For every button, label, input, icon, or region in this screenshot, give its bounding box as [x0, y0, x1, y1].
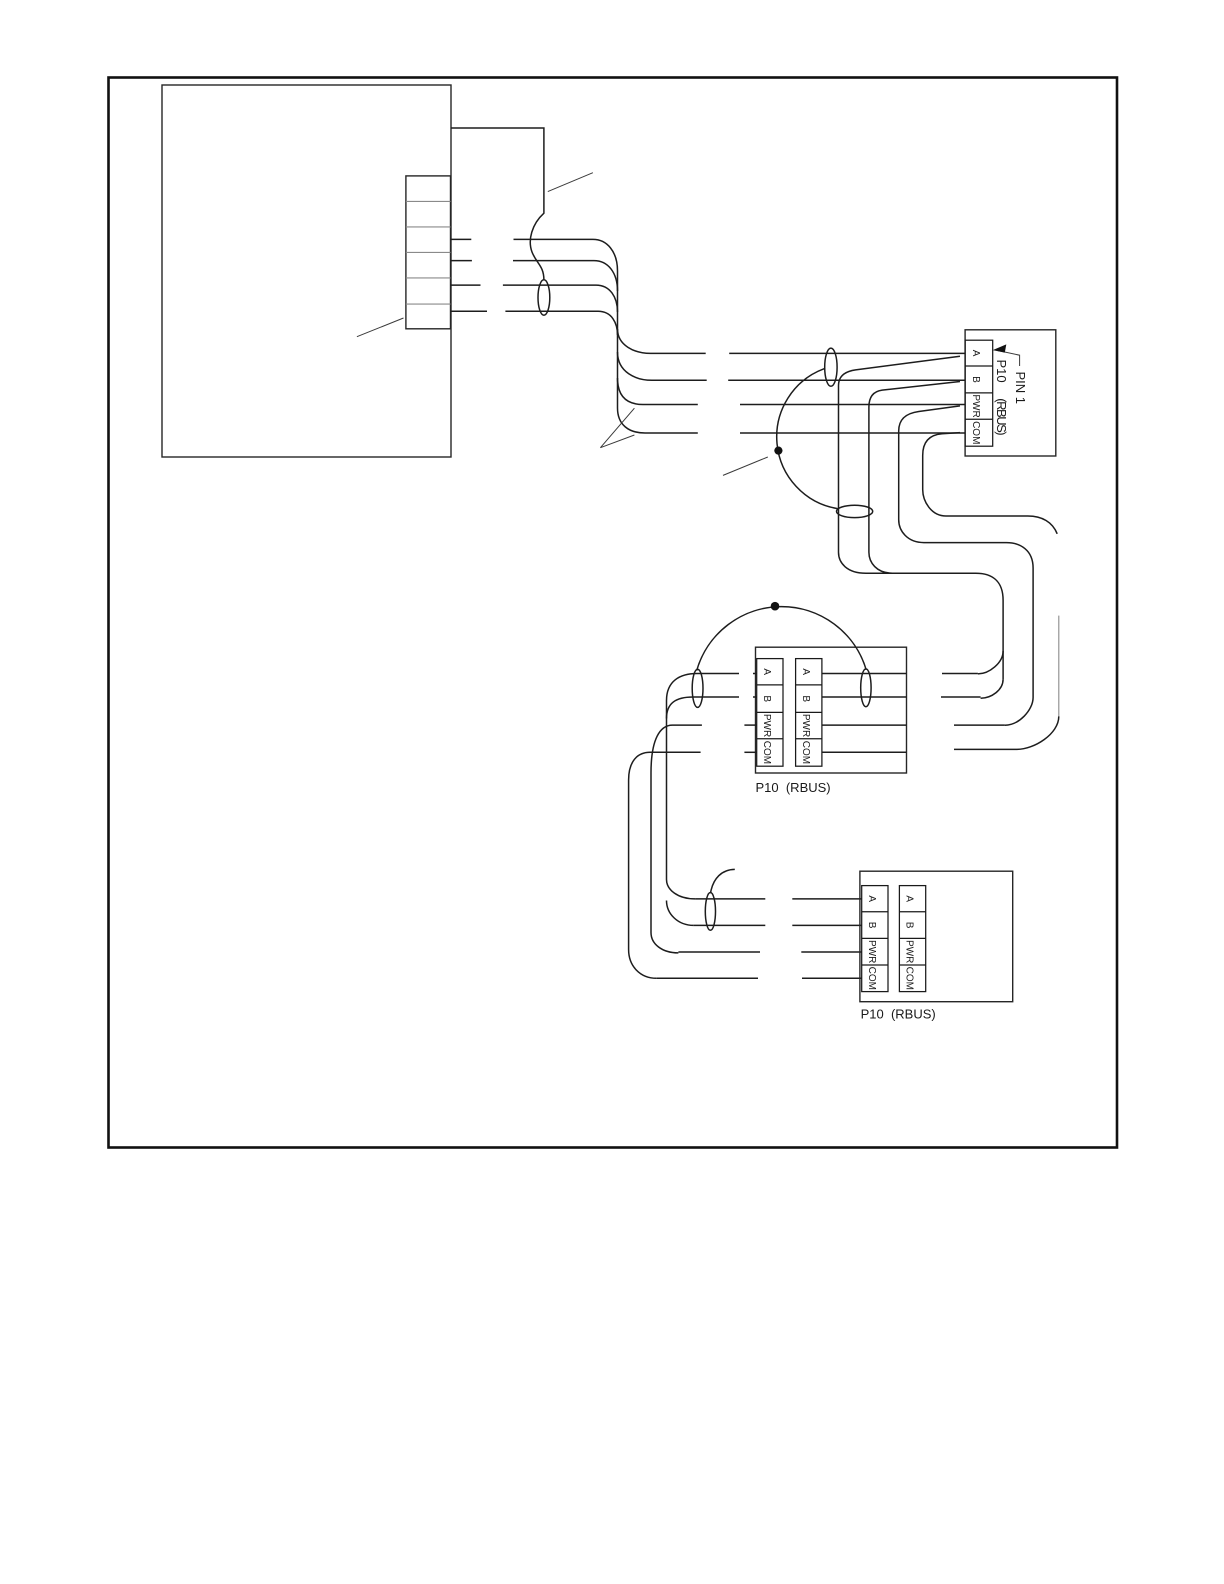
wire W3 (PWR) device stub [451, 284, 481, 286]
wire to P10-3 B pin [792, 924, 861, 926]
pair vertical continuation [1002, 651, 1004, 679]
svg-text:PWR: PWR [904, 940, 915, 963]
cable loop E5 inside P10-2 [861, 669, 871, 707]
svg-text:PWR: PWR [761, 714, 772, 737]
leader to junction dot [723, 457, 768, 475]
leader to connector J1 [357, 318, 404, 337]
wire P10-2 right PWR inside box [822, 724, 907, 726]
wire W2 (B) run to S-bend [513, 261, 618, 291]
cable loop E1 [538, 280, 550, 315]
wire W1 (A) run to P10-1 pin A [729, 352, 965, 354]
cable loop E2 at P10-1 [825, 348, 837, 386]
svg-text:PIN 1: PIN 1 [1013, 372, 1028, 405]
connector J1 on device [406, 176, 451, 329]
wire P10-1 pin COM down [923, 433, 1057, 534]
wire W2 (B) exit of S-bend toward connector P10-1 [618, 352, 707, 380]
svg-text:COM: COM [970, 421, 981, 444]
PWR elbow at P10-3 [651, 933, 678, 953]
shield drain arc C1 at P10-1 [777, 369, 838, 509]
wire P10-2 left PWR turn down [651, 725, 702, 773]
svg-text:P10: P10 [994, 360, 1009, 383]
COM vertical to P10-3 [628, 780, 630, 950]
wire P10-2 right COM inside box [822, 751, 907, 753]
svg-text:B: B [904, 922, 915, 929]
wire to P10-3 PWR pin [801, 951, 861, 953]
PIN 1 leader with arrowhead [997, 350, 1020, 366]
wire to P10-3 COM pin [802, 977, 862, 979]
COM daisy elbow into P10-2 [1017, 716, 1059, 749]
wire W4 (COM) run to S-bend [505, 311, 617, 335]
wire to P10-3 COM run [657, 977, 758, 979]
wire W1 (A) device stub [451, 238, 472, 240]
connector P10-3 right pin strip [899, 886, 925, 992]
junction dot on arc C2 [771, 602, 780, 611]
connector P10-2 left pin strip [757, 659, 783, 767]
wire P10-2 left COM turn down [629, 752, 701, 780]
wire W3 (PWR) exit of S-bend toward connector P10-1 [618, 378, 698, 405]
shield drain curl at P10-3 [711, 869, 735, 893]
wire W1 (A) exit of S-bend toward connector P10-1 [618, 329, 706, 353]
wire P10-2 left A through E4, turn down [667, 674, 740, 701]
svg-text:COM: COM [904, 967, 915, 990]
leader to wire W0 [548, 173, 593, 192]
wire P10-1 pin A to daisy chain (diagonal + vertical) [839, 356, 1004, 674]
wire to P10-3 B run [694, 924, 766, 926]
connector P10-3 left pin strip [862, 886, 888, 992]
wire W4 (COM) run to P10-1 pin COM [740, 432, 965, 434]
wire P10-1 pin B to daisy chain [869, 382, 960, 574]
svg-text:P10 (RBUS): P10 (RBUS) [756, 780, 831, 795]
COM daisy vertical (faint) [1058, 616, 1060, 717]
junction dot on arc C1 [774, 447, 782, 455]
svg-text:A: A [866, 895, 877, 902]
wire P10-2 right B resume [941, 696, 981, 698]
svg-text:A: A [800, 668, 811, 675]
connector P10-1 box [965, 330, 1056, 456]
wire W3 (PWR) run to S-bend [503, 285, 618, 312]
device box (control unit) [162, 85, 451, 457]
connector P10-1 pin strip [965, 340, 993, 446]
svg-text:PWR: PWR [800, 714, 811, 737]
svg-text:COM: COM [761, 741, 772, 764]
wire W2 (B) device stub [451, 260, 472, 262]
svg-text:PWR: PWR [866, 940, 877, 963]
svg-text:COM: COM [800, 741, 811, 764]
connector P10-2 box [756, 647, 907, 773]
wire W0 shield drain from device [451, 128, 544, 280]
A/B pair vertical to P10-3 [666, 701, 668, 880]
wire to P10-3 A run [695, 898, 765, 900]
pair split to row B at P10-3 [667, 901, 694, 926]
svg-text:P10 (RBUS): P10 (RBUS) [861, 1007, 936, 1022]
svg-text:A: A [761, 668, 772, 675]
wire P10-2 right COM resume [954, 748, 1017, 750]
svg-text:(RBUS): (RBUS) [994, 398, 1009, 435]
svg-text:B: B [866, 922, 877, 929]
wire P10-2 right B inside box [822, 696, 907, 698]
wire P10-2 right A resume [942, 673, 978, 675]
wire to P10-3 PWR run [678, 951, 760, 953]
connector P10-2 right pin strip [796, 659, 822, 767]
wire W3 (PWR) run to P10-1 pin PWR [740, 404, 965, 406]
wire W1 (A) run to S-bend [514, 239, 618, 271]
svg-text:B: B [970, 376, 981, 383]
pair split to row A at P10-3 [667, 880, 696, 899]
wire P10-2 left B through E4, turn down [667, 697, 740, 719]
cable tie loop E3 (horizontal) [837, 505, 873, 517]
wire W4 (COM) device stub [451, 310, 488, 312]
border frame [109, 78, 1118, 1148]
svg-text:B: B [800, 695, 811, 702]
svg-text:COM: COM [866, 967, 877, 990]
wire to P10-3 A pin [792, 898, 861, 900]
cable loop E4 left of P10-2 [692, 669, 703, 707]
svg-text:A: A [904, 895, 915, 902]
PWR vertical to P10-3 [650, 773, 652, 933]
svg-text:PWR: PWR [970, 394, 981, 417]
cable bundle vertical [617, 271, 619, 408]
cable loop E6 at P10-3 [705, 893, 715, 931]
wire P10-2 right PWR resume [954, 724, 1005, 726]
shield drain arc C2 over P10-2 [697, 607, 867, 671]
wire W2 (B) run to P10-1 pin B [728, 379, 965, 381]
wire W4 (COM) exit of S-bend toward connector P10-1 [618, 408, 698, 433]
leader V pointer to cable bundle [600, 408, 634, 448]
svg-text:B: B [761, 695, 772, 702]
wire P10-1 pin PWR down [899, 406, 1033, 725]
wire P10-2 right A inside box [822, 673, 907, 675]
pair split to row B at P10-2 [981, 679, 1004, 698]
svg-text:A: A [970, 350, 981, 357]
connector P10-3 box [860, 871, 1013, 1002]
COM elbow at P10-3 [629, 950, 657, 979]
